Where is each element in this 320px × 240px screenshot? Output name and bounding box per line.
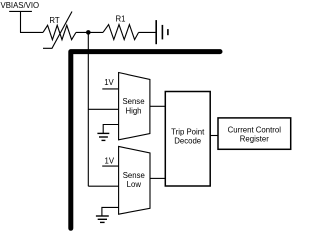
block Trip Point Decode [165,92,210,187]
svg-text:Sense: Sense [123,171,145,180]
wire Sense Low output [150,177,165,179]
svg-text:RT: RT [49,16,59,25]
battery symbol [156,20,168,44]
ground (Sense High) [97,133,109,140]
wire bus to Sense Low input [88,185,118,187]
svg-text:Current Control: Current Control [228,126,282,135]
svg-text:R1: R1 [116,15,126,24]
wire 1V stub to Sense Low [102,165,118,167]
svg-text:Trip Point: Trip Point [171,128,205,137]
wire ground to Sense High input [103,125,118,134]
junction node dot [86,30,91,35]
ground (Sense Low) [96,216,109,222]
svg-text:Decode: Decode [174,137,201,146]
svg-text:1V: 1V [104,78,114,87]
wire ground to Sense Low input [102,207,119,215]
op-amp Sense High comparator [119,73,150,140]
RT thermistor diagonal stroke [43,12,72,49]
wire from VBIAS/VIO to RT [20,31,43,33]
thick bus wire (L shape) [71,52,220,229]
svg-text:Sense: Sense [122,97,144,106]
node VBIAS/VIO pin tick [9,11,32,32]
svg-text:VBIAS/VIO: VBIAS/VIO [1,1,40,10]
svg-text:Register: Register [240,135,269,144]
op-amp Sense Low comparator [119,146,150,214]
wire R1 to battery [139,31,156,33]
wire Sense High output [150,105,165,107]
resistor R1 zigzag [103,25,139,40]
wire RT to R1 [76,31,103,33]
wire 1V stub to Sense High [102,88,118,90]
wire Trip Point Decode to Current Control Register [210,135,218,137]
wire junction drop (bus to sense inputs) [87,32,89,186]
block Current Control Register [218,118,291,149]
svg-text:High: High [125,106,141,115]
svg-text:Low: Low [127,180,142,189]
svg-text:1V: 1V [105,156,115,165]
wire bus to Sense High input [88,108,118,110]
resistor RT (thermistor) zigzag [43,25,76,39]
